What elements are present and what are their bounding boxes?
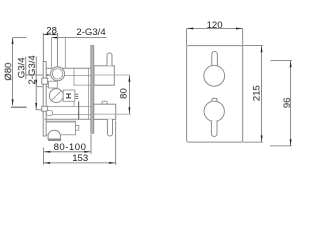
in-wall upper box bbox=[94, 66, 114, 85]
dimension 153 (bottom) bbox=[43, 121, 115, 166]
cartridge stem vertical line bbox=[78, 101, 80, 119]
arrow on leader (upper port) bbox=[35, 80, 37, 86]
dimension 120 (top of front view) bbox=[187, 29, 243, 46]
bottom knob lever bbox=[211, 121, 217, 137]
svg-text:80: 80 bbox=[119, 88, 130, 99]
small tab on lower housing bbox=[76, 125, 79, 130]
wall mounting plate (edge-on, gray) bbox=[91, 46, 94, 134]
capped inlet pipe (top) bbox=[107, 53, 112, 66]
arrow 28 left bbox=[43, 34, 48, 36]
svg-text:153: 153 bbox=[72, 153, 88, 164]
upper pipe centerline / 80-dim top extension bbox=[94, 74, 130, 76]
trim plate bbox=[187, 46, 243, 143]
dimension 96 (far right) bbox=[270, 61, 292, 146]
bottom outlet pipe (U shape) bbox=[107, 119, 112, 136]
bottom knob nub bbox=[212, 98, 217, 102]
bar collar upper bbox=[42, 78, 48, 84]
dimension 80 (vertical, right of side view) bbox=[128, 75, 130, 114]
extension line, diameter 80 top bbox=[13, 37, 27, 39]
thread dashes right of cartridge box bbox=[75, 94, 78, 98]
valve body outline bbox=[45, 68, 116, 119]
dimension 80-100 (bottom) bbox=[44, 135, 91, 155]
leader line for 2-G3/4 top label bbox=[51, 37, 106, 39]
svg-text:215: 215 bbox=[252, 85, 263, 101]
leader G3/4 to top port bbox=[26, 74, 50, 76]
dome base plate bbox=[48, 139, 61, 141]
connector block between ports bbox=[49, 81, 58, 88]
H mark bbox=[66, 94, 71, 98]
lower housing box bbox=[46, 121, 75, 135]
svg-text:96: 96 bbox=[282, 98, 293, 109]
svg-text:80-100: 80-100 bbox=[54, 142, 87, 153]
dimension 215 (right of front view) bbox=[243, 46, 263, 143]
svg-text:2-G3/4: 2-G3/4 bbox=[76, 27, 106, 38]
cartridge box with H mark bbox=[63, 90, 75, 101]
top port pipe (rises from top circle to leader) bbox=[51, 38, 65, 69]
internal cartridge lines bbox=[47, 68, 91, 120]
bottom knob bbox=[204, 101, 224, 121]
escutcheon bar (left thin plate) bbox=[43, 62, 46, 137]
top knob stem bbox=[212, 51, 218, 66]
dimension line 28 bbox=[43, 33, 57, 35]
small stub port (left, lower) bbox=[46, 111, 52, 116]
top knob bbox=[204, 65, 225, 86]
small pill on lower box bbox=[102, 101, 107, 104]
bar collar lower bbox=[42, 106, 48, 111]
svg-text:Ø80: Ø80 bbox=[3, 63, 14, 81]
lower pipe centerline / 80-dim bottom extension bbox=[94, 113, 131, 115]
dimension Ø80 (vertical, far left) bbox=[11, 38, 27, 108]
arrow on leader (lower port) bbox=[35, 103, 37, 109]
arrow Ø80 top bbox=[12, 38, 14, 44]
bottom port circle with slash bbox=[49, 89, 63, 103]
svg-text:120: 120 bbox=[207, 20, 223, 31]
svg-text:28: 28 bbox=[46, 25, 57, 36]
arrow Ø80 bottom bbox=[12, 99, 14, 105]
arrow on leader at top port pipe bbox=[51, 37, 57, 39]
outlet dome bbox=[48, 130, 60, 139]
top port circle (G3/4) bbox=[51, 67, 65, 81]
in-wall lower box bbox=[94, 104, 116, 119]
arrow 28 right bbox=[52, 34, 57, 36]
